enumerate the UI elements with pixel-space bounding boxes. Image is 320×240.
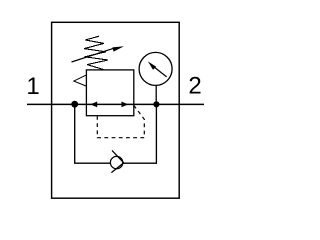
junction node right [153, 101, 159, 107]
pressure gauge dial [139, 52, 172, 85]
gauge needle head [148, 61, 156, 69]
check valve seat [111, 150, 123, 172]
flow arrowhead right [122, 102, 129, 108]
wire: gauge stem [155, 86, 157, 105]
pilot line (dashed feedback path) [97, 105, 144, 137]
relief vent triangle [74, 75, 87, 86]
flow arrowhead left [90, 102, 97, 108]
svg-text:2: 2 [188, 73, 201, 100]
enclosure box (service unit outline) [52, 22, 180, 198]
svg-text:1: 1 [26, 73, 39, 100]
junction node left [71, 101, 78, 108]
adjustment spring [84, 36, 108, 69]
gauge needle shaft [154, 67, 167, 77]
adjustment arrow shaft [72, 48, 115, 62]
wire: main flow line from port 1 to port 2 [27, 103, 204, 105]
pressure regulator body [86, 70, 133, 116]
check valve poppet circle [110, 156, 122, 168]
wire: bypass branch (left, bottom, right) [75, 104, 157, 163]
adjustment arrow head [112, 46, 124, 51]
